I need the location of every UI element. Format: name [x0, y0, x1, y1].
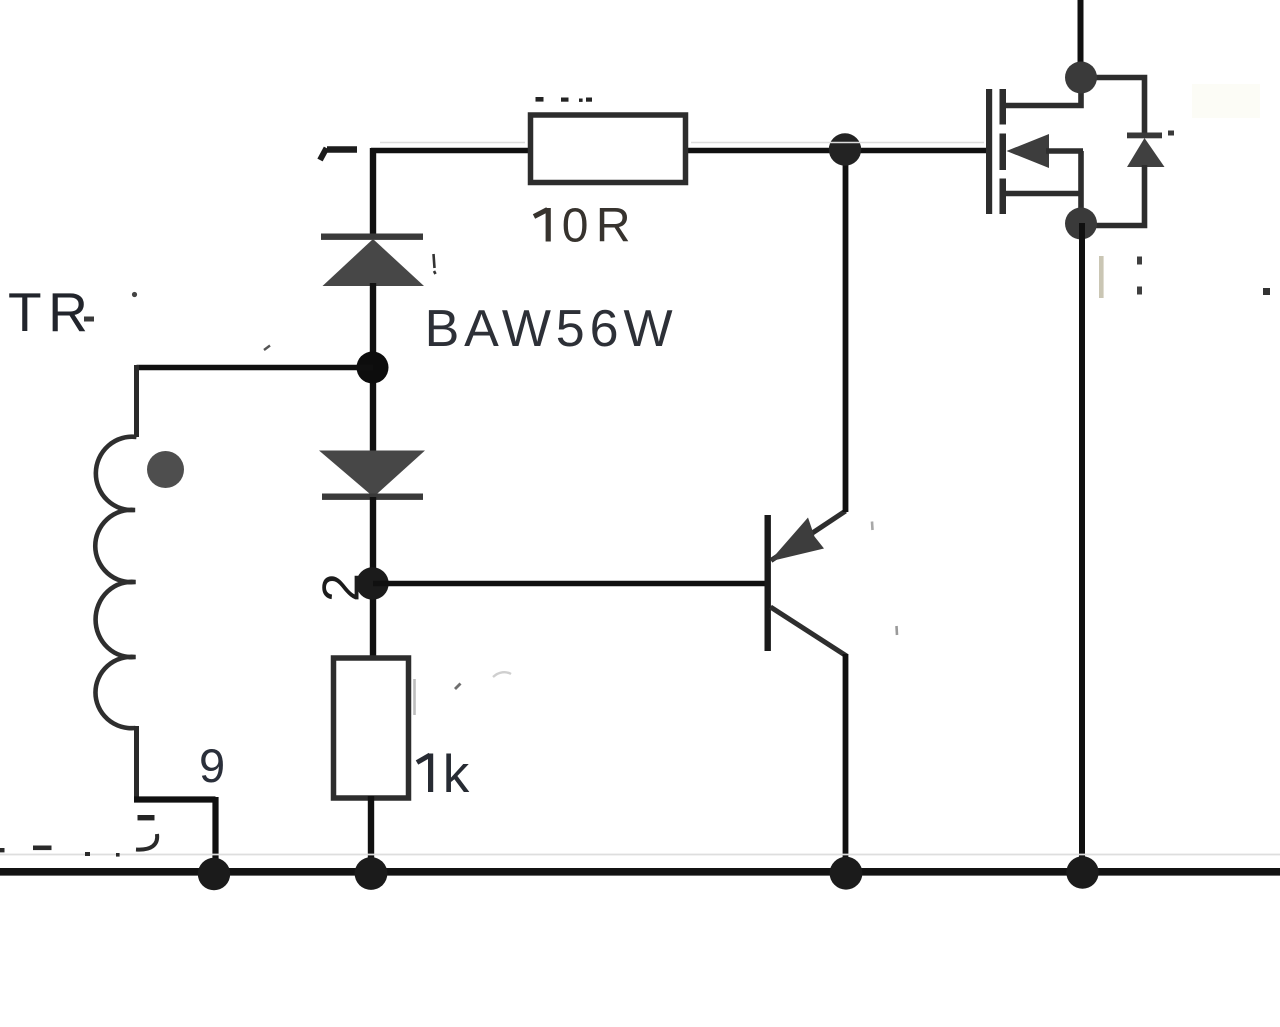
artifact erased text bottom-left — [0, 815, 157, 857]
artifact dashes above R1 — [536, 97, 593, 102]
wire: base wire y=583 from node 2 to Q1 base — [373, 581, 766, 587]
ground rail (bottom horizontal) — [0, 868, 1280, 876]
wire: middle vertical from D2 through node 2 to R2 top — [370, 497, 376, 657]
svg-text:k: k — [443, 745, 470, 804]
transistor Q1 (PNP) base bar — [765, 515, 771, 651]
wire: main right vertical to ground rail — [1079, 223, 1085, 873]
wire: horizontal y=367 to transformer — [137, 365, 374, 371]
wire: transformer left vertical bottom — [134, 726, 139, 800]
node: drain junction dot (1081,77) — [1065, 62, 1097, 94]
body diode loop top wire — [1081, 78, 1145, 135]
pin number 1 (rotated) — [320, 148, 357, 160]
artifact dash after TR — [84, 317, 94, 322]
wire: R2 bottom to ground rail — [368, 796, 374, 873]
artifact marks near Q1 — [871, 522, 874, 531]
MOSFET Q2 source lead (bottom) — [1003, 191, 1081, 197]
artifact marks near MOSFET — [1099, 131, 1270, 299]
diode D1 BAW56W upper (pointing up) — [321, 234, 424, 287]
wire: transformer bottom horizontal — [134, 796, 216, 802]
svg-text:TR: TR — [8, 281, 94, 343]
wire: pin9 leg vertical to ground rail — [212, 797, 218, 873]
transistor Q1 emitter arrowhead — [770, 518, 825, 562]
wire: top horizontal from node 1 corner to gate of Q2 — [371, 148, 988, 154]
body diode loop bottom wire — [1081, 165, 1145, 226]
artifact ghost line above top wire — [380, 142, 984, 144]
MOSFET Q2 channel bar segments — [1000, 89, 1007, 214]
node A junction dot (373,367) — [357, 352, 389, 384]
body diode D3 cathode bar — [1127, 133, 1162, 139]
transistor Q1 emitter line — [771, 511, 846, 561]
rail junction dot (371,873) — [355, 857, 388, 890]
svg-text:9: 9 — [199, 739, 225, 792]
transformer TR primary winding (4 arcs) — [95, 437, 136, 728]
wire: middle vertical between D1 and node A — [370, 283, 376, 452]
wire: main right vertical top (from image top to drain node) — [1078, 0, 1084, 78]
svg-text:0R: 0R — [562, 200, 638, 253]
svg-text:BAW56W: BAW56W — [425, 300, 678, 358]
wire: emitter vertical x=845 from node at y=150 to Q1 — [843, 150, 849, 512]
artifact ghost line above ground rail — [0, 854, 1280, 856]
MOSFET Q2 gate bar (left, full) — [986, 89, 992, 214]
value label 1k — [417, 745, 470, 804]
wire: middle vertical column x=373 top segment — [370, 148, 376, 237]
wire: source/bulk vertical to bottom node — [1078, 151, 1084, 223]
node 2 junction dot (373,583) — [356, 567, 388, 599]
value label 10R — [534, 200, 638, 253]
MOSFET Q2 bulk arrow — [1007, 134, 1050, 168]
resistor R2 1k (box) — [334, 658, 409, 798]
diode D2 BAW56W lower (pointing down) — [319, 451, 425, 500]
artifact tick right of D1 — [434, 254, 436, 274]
svg-text:2: 2 — [313, 573, 371, 602]
transistor Q1 collector line — [771, 607, 847, 656]
resistor R1 10R (box) — [531, 115, 686, 183]
node junction dot (845,150) — [829, 133, 861, 165]
artifact fragments right of R2 — [413, 679, 416, 715]
body diode D3 triangle (pointing up) — [1127, 138, 1165, 167]
node: source junction dot (1081,223) — [1065, 208, 1097, 240]
artifact tick (263,347) — [264, 346, 270, 351]
MOSFET Q2 drain lead (top) — [1003, 79, 1081, 106]
artifact dot near TR — [132, 292, 137, 297]
wire: transformer left vertical top — [134, 365, 139, 437]
transformer polarity dot — [147, 451, 184, 488]
wire: collector vertical x=845 to ground rail — [843, 654, 849, 873]
rail junction dot (213,874) — [198, 858, 230, 890]
rail junction dot (846,874) — [830, 857, 863, 890]
artifact faint cream box top right — [1192, 84, 1260, 118]
rail junction dot (1083,873) — [1066, 856, 1098, 888]
